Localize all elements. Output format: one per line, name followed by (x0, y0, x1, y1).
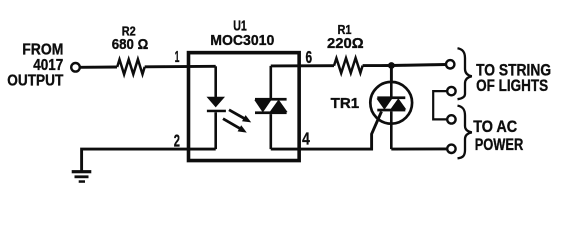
LED cathode bar (207, 110, 226, 113)
TR1 right triangle (391, 99, 405, 109)
triac TR1 circle (370, 82, 412, 124)
svg-text:2: 2 (174, 130, 180, 150)
wire input terminal to R2 (80, 66, 117, 69)
photo-triac right triangle (271, 100, 287, 111)
pin 2 wire (LED cathode out of box to ground rail) (82, 149, 216, 170)
wire TR1 MT1 to terminal T4 (391, 147, 446, 150)
LED triangle (208, 97, 224, 106)
wire R2 to pin 1 / LED anode (145, 65, 216, 68)
LED inside U1 : anode wire (214, 66, 217, 97)
TR1 top bar (377, 96, 405, 99)
terminal T1 (to string of lights, top) (446, 60, 454, 68)
svg-text:680 Ω: 680 Ω (112, 37, 149, 53)
TR1 MT2 wire inside circle (390, 82, 393, 97)
light emission arrow 1 (229, 110, 251, 123)
light emission arrow 2 (223, 119, 247, 133)
brace for string of lights (458, 48, 472, 99)
LED cathode wire to pin 2 rail (214, 112, 217, 149)
svg-text:220Ω: 220Ω (327, 36, 364, 52)
resistor R1 (334, 58, 363, 73)
terminal input from 4017 (71, 63, 80, 72)
junction dot (388, 62, 395, 69)
svg-text:R1: R1 (338, 22, 352, 37)
photo-triac left triangle (255, 100, 270, 111)
TR1 left triangle (378, 99, 392, 109)
photo-triac bottom wire to pin 4 (269, 114, 272, 149)
svg-text:4: 4 (302, 129, 310, 149)
svg-text:1: 1 (175, 49, 180, 66)
TR1 MT1 wire down (390, 111, 393, 149)
optocoupler U1 MOC3010 package box (189, 53, 300, 161)
TR1 bottom bar (377, 109, 405, 112)
svg-text:OF LIGHTS: OF LIGHTS (476, 76, 548, 95)
wire junction down to TR1 (390, 66, 393, 83)
brace for AC power (458, 106, 472, 159)
photo-triac top bar (255, 98, 287, 101)
terminal T2 (string of lights return) (447, 87, 455, 95)
label TO STRING OF LIGHTS (476, 61, 551, 95)
pin 6 wire out of box to R1 (271, 64, 334, 67)
svg-text:6: 6 (306, 47, 313, 67)
wire junction to terminal T1 (391, 65, 446, 66)
wire loop T2 to T3 (433, 91, 447, 119)
label TO AC POWER (473, 117, 523, 154)
terminal T3 (AC power top) (447, 115, 455, 123)
ground (72, 170, 92, 183)
terminal T4 (to AC power, bottom) (447, 145, 455, 153)
svg-text:TR1: TR1 (331, 96, 360, 112)
svg-text:TO AC: TO AC (473, 117, 517, 136)
svg-text:POWER: POWER (475, 135, 524, 154)
photo-triac bottom bar (255, 111, 287, 114)
svg-text:MOC3010: MOC3010 (210, 33, 274, 49)
svg-text:OUTPUT: OUTPUT (7, 72, 64, 89)
resistor R2 (117, 59, 145, 74)
node FROM 4017 OUTPUT label (7, 42, 64, 90)
photo-triac inside U1 : top wire from pin 6 (269, 66, 272, 98)
pin 4 wire out of box to TR1 gate (271, 112, 382, 150)
wire R1 to junction (363, 64, 392, 67)
